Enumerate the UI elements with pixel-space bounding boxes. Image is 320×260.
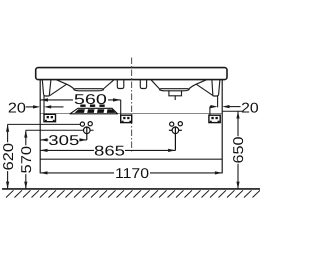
ref line 650 top bbox=[222, 110, 243, 112]
mounting bracket bbox=[70, 105, 118, 114]
right socket stem bbox=[209, 107, 211, 116]
left skirt diagonal bbox=[50, 84, 66, 95]
right bowl bottom lens bbox=[159, 89, 189, 91]
right socket bbox=[209, 115, 220, 122]
svg-text:1170: 1170 bbox=[115, 166, 149, 182]
svg-text:650: 650 bbox=[231, 136, 247, 163]
560 stem to socket bbox=[120, 100, 122, 115]
svg-text:620: 620 bbox=[1, 143, 17, 171]
extension line left A bbox=[39, 80, 41, 174]
svg-text:305: 305 bbox=[48, 133, 79, 149]
right drain box bbox=[169, 91, 182, 96]
right bowl inner wall bbox=[152, 80, 160, 89]
ref line 620 bbox=[8, 123, 81, 125]
right skirt diagonal bbox=[196, 84, 212, 95]
dim 560 right arrow bbox=[113, 98, 121, 101]
dim 1170 bbox=[40, 172, 222, 174]
centerline CL bbox=[131, 58, 133, 152]
ref line 570 / crosshair arm left bbox=[26, 129, 94, 131]
furniture thin top line bbox=[40, 113, 222, 115]
dim 20 left inner arrow bbox=[50, 106, 64, 108]
dim 20 left arrow bbox=[26, 106, 34, 108]
left socket bbox=[44, 114, 56, 121]
left bowl bottom lens bbox=[74, 89, 104, 91]
svg-text:20: 20 bbox=[241, 100, 259, 116]
dim 20 right arrow bbox=[230, 106, 241, 108]
left bowl inner wall bbox=[103, 80, 113, 89]
right leg bbox=[212, 80, 220, 96]
right drain crosshair bbox=[169, 126, 182, 150]
left drain crosshair bbox=[84, 126, 91, 139]
bracket top screws bbox=[80, 105, 85, 107]
right drain tick bbox=[174, 96, 176, 100]
washbasin slab bbox=[36, 68, 227, 80]
dim 560 left arrow bbox=[40, 98, 48, 101]
label 560 bbox=[73, 93, 108, 104]
furniture thin bottom line bbox=[40, 158, 222, 160]
svg-text:20: 20 bbox=[8, 100, 26, 116]
center socket bbox=[121, 115, 132, 122]
right center tab bbox=[140, 80, 146, 88]
floor line bbox=[2, 188, 260, 190]
svg-text:865: 865 bbox=[94, 144, 125, 160]
dim 650 vertical bbox=[237, 111, 239, 189]
left center tab bbox=[117, 80, 124, 88]
floor hatching bbox=[6, 190, 260, 197]
svg-text:570: 570 bbox=[19, 146, 35, 174]
right supply circles bbox=[170, 122, 174, 126]
dim 305 bbox=[40, 139, 87, 141]
extension line right A bbox=[221, 80, 223, 174]
left supply circles bbox=[80, 122, 84, 126]
dim 865 bbox=[40, 149, 175, 151]
dim 620 vertical bbox=[7, 124, 9, 188]
left leg bbox=[42, 80, 51, 96]
dim 560 line bbox=[40, 100, 121, 115]
left leg edge extension / socket stem bbox=[43, 96, 45, 114]
right leg edge extension bbox=[217, 96, 219, 107]
left bowl outer wall bbox=[57, 80, 75, 89]
dim 570 vertical bbox=[25, 130, 27, 189]
dim 20 right inner arrow bbox=[210, 106, 212, 108]
right bowl outer wall bbox=[189, 80, 206, 89]
